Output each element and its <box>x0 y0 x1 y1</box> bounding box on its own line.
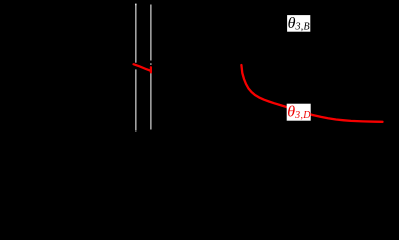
red vertical hook on right gray line <box>150 67 152 72</box>
wire: left vertical gray line (lower segment) <box>135 69 137 130</box>
label theta_3,D white box <box>287 104 311 121</box>
wire: right vertical gray line (lower segment) <box>150 73 152 130</box>
wire: right vertical gray line (small middle segment) <box>150 63 152 65</box>
label theta_3,B white box <box>287 15 310 32</box>
wire: left vertical gray line (upper segment) <box>135 5 137 62</box>
wire: right vertical gray line (upper segment) <box>150 5 152 61</box>
red curve segment between the gray lines <box>134 64 151 71</box>
red decaying curve theta_3,D (right side) <box>241 65 382 122</box>
